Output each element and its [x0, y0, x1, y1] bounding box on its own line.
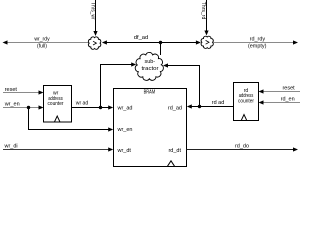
- arrowhead reset into rd counter: [259, 89, 264, 93]
- arrowhead rd feedback into subtractor: [163, 63, 168, 67]
- svg-text:counter: counter: [48, 101, 64, 107]
- wire reset left: [3, 92, 39, 94]
- wr address counter box: [44, 86, 72, 123]
- wire wr_di line: [3, 149, 109, 151]
- svg-text:counter: counter: [238, 99, 254, 105]
- wire wr_en branch down to BRAM: [29, 108, 109, 130]
- arrowhead reset into wr counter: [39, 90, 44, 94]
- svg-text:rd ad: rd ad: [212, 100, 225, 106]
- svg-text:sub-: sub-: [144, 59, 155, 65]
- wire reset right: [263, 91, 300, 93]
- svg-text:wr_en: wr_en: [4, 101, 20, 107]
- svg-text:(empty): (empty): [248, 43, 267, 49]
- arrowhead wr_en into wr counter: [39, 105, 44, 109]
- svg-text:wr_en: wr_en: [117, 127, 133, 133]
- rd address counter box: [234, 83, 259, 121]
- svg-text:wr_di: wr_di: [4, 144, 18, 150]
- svg-text:(full): (full): [37, 43, 47, 49]
- arrowhead wr_ad into BRAM: [108, 105, 113, 109]
- arrowhead rd_do right: [293, 147, 298, 151]
- comparator cloud CMP2 (empty): [201, 36, 213, 48]
- wire rd ad feedback to subtractor: [168, 66, 200, 107]
- subtractor cloud U1: [135, 52, 163, 80]
- comparator cloud CMP1 (full): [88, 37, 100, 49]
- arrowhead df_ad into CMP1: [102, 40, 107, 44]
- svg-text:tractor: tractor: [142, 66, 159, 72]
- wire wr_en left: [3, 107, 39, 109]
- svg-text:reset: reset: [5, 87, 18, 93]
- svg-text:wr_ad: wr_ad: [117, 106, 133, 112]
- wire Thrs_rd vertical input: [206, 0, 208, 31]
- junction dot df_ad: [159, 41, 162, 44]
- svg-text:rd_ad: rd_ad: [168, 106, 182, 112]
- svg-text:BRAM: BRAM: [144, 90, 156, 96]
- svg-text:rd_dt: rd_dt: [168, 148, 181, 154]
- label CMP1 >: [93, 41, 96, 45]
- svg-text:rd_rdy: rd_rdy: [250, 36, 266, 42]
- arrowhead wr feedback into subtractor: [131, 62, 136, 66]
- svg-text:reset: reset: [282, 85, 295, 91]
- wire rd_en right: [263, 102, 300, 104]
- wire rd ad line: [191, 106, 234, 108]
- BRAM box: [114, 89, 187, 167]
- svg-text:Thrs_rd: Thrs_rd: [200, 2, 206, 20]
- arrowhead rd_en into rd counter: [259, 100, 264, 104]
- arrowhead wr_di into BRAM: [108, 147, 113, 151]
- arrowhead wr_en into BRAM: [108, 127, 113, 131]
- clock triangle wr counter: [55, 116, 60, 122]
- svg-text:wr_rdy: wr_rdy: [33, 36, 49, 42]
- arrowhead Thrs_rd down: [204, 31, 208, 36]
- arrowhead rd_rdy right: [293, 40, 298, 44]
- svg-text:wr ad: wr ad: [75, 101, 88, 107]
- wire subtractor output up: [160, 43, 162, 56]
- wire wr_rdy output line: [7, 42, 89, 44]
- label CMP2 >: [206, 40, 209, 44]
- wire Thrs_wr vertical input: [95, 0, 97, 32]
- wire rd_do output: [187, 149, 294, 151]
- clock triangle rd counter: [241, 115, 246, 121]
- svg-text:rd_do: rd_do: [235, 143, 249, 149]
- arrowhead wr_rdy left: [3, 40, 8, 44]
- junction dot wr ad: [99, 106, 102, 109]
- clock triangle BRAM: [168, 161, 175, 166]
- wire wr ad feedback to subtractor: [101, 65, 132, 108]
- svg-text:df_ad: df_ad: [134, 35, 149, 41]
- svg-text:rd_en: rd_en: [281, 97, 295, 103]
- svg-text:Thrs_wr: Thrs_wr: [89, 2, 95, 20]
- wire rd_rdy output line: [214, 42, 294, 44]
- arrowhead df_ad into CMP2: [196, 40, 201, 44]
- arrowhead Thrs_wr down: [93, 31, 97, 36]
- junction dot rd ad: [198, 105, 201, 108]
- junction dot wr_en: [27, 106, 30, 109]
- svg-text:wr_dt: wr_dt: [117, 148, 132, 154]
- wire df_ad line: [106, 42, 197, 44]
- arrowhead rd_ad into BRAM: [187, 104, 192, 108]
- wire wr ad line: [72, 107, 109, 109]
